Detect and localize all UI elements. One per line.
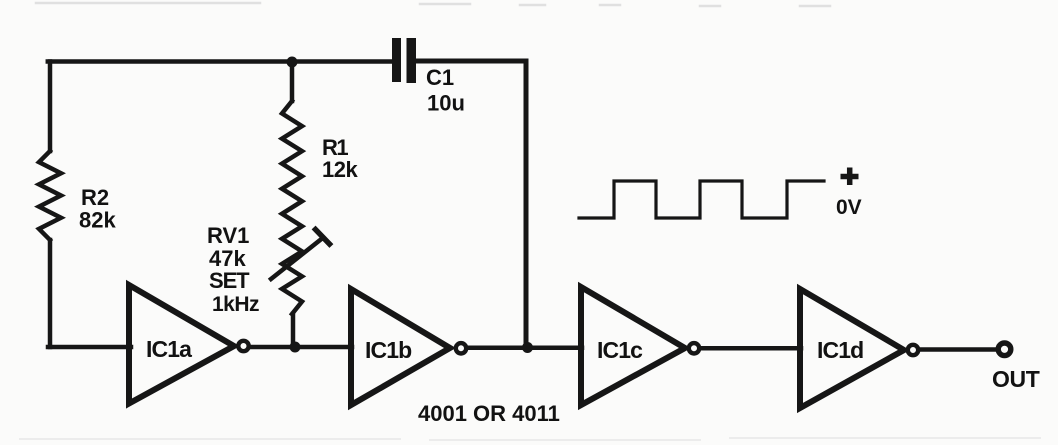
wire IC1b output to IC1c input	[468, 346, 582, 351]
node OUT terminal	[998, 343, 1011, 356]
wire top horizontal	[48, 59, 393, 64]
wire IC1c output to IC1d input	[701, 346, 801, 351]
RV1 wiper T-bar	[316, 230, 330, 245]
IC1a output bubble	[238, 341, 248, 351]
node junction top of R1	[287, 57, 298, 68]
svg-text:12k: 12k	[322, 157, 358, 182]
resistor R2	[39, 151, 61, 240]
wire left vertical lower	[48, 240, 53, 347]
svg-text:R2: R2	[81, 185, 109, 210]
svg-text:IC1b: IC1b	[365, 337, 412, 363]
svg-text:OUT: OUT	[992, 366, 1040, 392]
capacitor C1 left plate	[392, 38, 401, 82]
svg-text:C1: C1	[426, 65, 454, 90]
resistor R1 / preset RV1 element	[282, 101, 302, 314]
inverter IC1b	[351, 289, 450, 405]
IC1b output bubble	[456, 343, 466, 353]
plus symbol	[841, 168, 859, 186]
inverter IC1c	[581, 287, 685, 405]
svg-text:RV1: RV1	[207, 223, 249, 248]
node junction after IC1b	[522, 342, 533, 353]
square wave waveform	[579, 181, 824, 218]
wire top-left vertical	[48, 62, 53, 152]
wire IC1a output to IC1b input	[251, 345, 353, 350]
svg-text:IC1a: IC1a	[146, 336, 192, 362]
inverter IC1a	[129, 285, 234, 404]
IC1d output bubble	[908, 345, 918, 355]
IC1c output bubble	[689, 343, 699, 353]
RV1 wiper arrow	[271, 239, 322, 280]
wire IC1d output to OUT	[920, 347, 996, 352]
svg-text:10u: 10u	[427, 91, 465, 116]
svg-text:1kHz: 1kHz	[212, 293, 259, 316]
wire C1 right to corner	[416, 59, 526, 64]
svg-text:0V: 0V	[836, 196, 862, 219]
svg-text:IC1c: IC1c	[597, 337, 643, 363]
node junction RV1 to gate line	[290, 342, 301, 353]
wire right vertical	[524, 61, 529, 348]
svg-text:IC1d: IC1d	[817, 337, 863, 363]
svg-text:82k: 82k	[79, 208, 116, 233]
svg-text:SET: SET	[209, 268, 250, 293]
capacitor C1 right plate	[407, 38, 417, 83]
wire R1 top lead	[290, 62, 295, 101]
inverter IC1d	[800, 289, 904, 408]
svg-text:4001 OR 4011: 4001 OR 4011	[418, 401, 560, 426]
wire RV1 bottom lead	[291, 314, 296, 347]
wire bottom-left horizontal to IC1a input	[48, 345, 131, 350]
